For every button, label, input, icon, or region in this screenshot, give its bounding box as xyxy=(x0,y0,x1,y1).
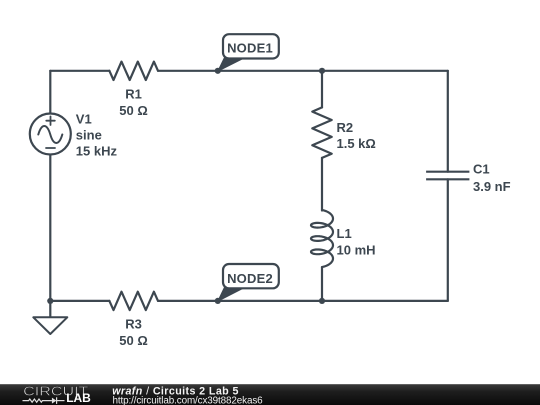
label V1 xyxy=(76,111,118,158)
footer bar xyxy=(0,384,540,405)
label L1 xyxy=(337,226,376,258)
logo diode triangle xyxy=(52,398,57,404)
svg-text:LAB: LAB xyxy=(66,391,91,405)
node NODE1 callout xyxy=(218,34,279,71)
node NODE1 dot xyxy=(215,68,221,74)
svg-text:10 mH: 10 mH xyxy=(337,243,376,258)
junction bottom left xyxy=(47,298,53,304)
junction node dots xyxy=(47,68,325,304)
svg-text:R3: R3 xyxy=(125,317,142,332)
wire right vertical lower xyxy=(447,179,449,301)
svg-text:http://circuitlab.com/cx39t882: http://circuitlab.com/cx39t882ekas6 xyxy=(113,395,264,405)
junction bottom middle xyxy=(319,298,325,304)
V1 plus sign xyxy=(46,116,55,125)
node NODE2 callout xyxy=(218,264,279,301)
label R1 xyxy=(119,87,148,119)
wire middle between R2 and L1 xyxy=(321,158,323,211)
resistor R1 xyxy=(109,62,158,80)
junction top middle xyxy=(319,68,325,74)
wire top-left vertical xyxy=(49,71,51,114)
svg-text:1.5 kΩ: 1.5 kΩ xyxy=(337,136,376,151)
svg-text:C1: C1 xyxy=(473,162,490,177)
wire right vertical upper xyxy=(447,71,449,172)
svg-text:50 Ω: 50 Ω xyxy=(119,333,148,348)
inductor L1 xyxy=(311,210,333,267)
wire bottom horizontal right segment xyxy=(158,300,448,302)
resistor R2 xyxy=(312,107,331,157)
capacitor C1 xyxy=(426,172,469,180)
label R3 xyxy=(119,317,148,349)
svg-text:R2: R2 xyxy=(337,120,354,135)
svg-text:V1: V1 xyxy=(76,111,92,126)
node NODE2 dot xyxy=(215,298,221,304)
wire middle vertical top xyxy=(321,71,323,108)
wire bottom horizontal left segment xyxy=(50,300,109,302)
svg-text:L1: L1 xyxy=(337,226,352,241)
svg-text:50 Ω: 50 Ω xyxy=(119,103,148,118)
wire top horizontal left segment xyxy=(50,70,109,72)
label R2 xyxy=(337,120,376,151)
svg-text:NODE1: NODE1 xyxy=(227,40,273,55)
wire top horizontal right segment xyxy=(158,70,448,72)
svg-text:R1: R1 xyxy=(125,87,142,102)
label C1 xyxy=(473,162,511,194)
svg-text:NODE2: NODE2 xyxy=(227,271,273,286)
svg-text:15 kHz: 15 kHz xyxy=(76,143,118,158)
wire left vertical lower xyxy=(49,155,51,301)
ground wire xyxy=(49,301,51,317)
svg-text:3.9 nF: 3.9 nF xyxy=(473,179,511,194)
V1 minus sign xyxy=(46,147,55,149)
V1 sine wave xyxy=(38,126,62,143)
svg-text:sine: sine xyxy=(76,127,102,142)
voltage source V1 circle xyxy=(30,114,71,155)
logo resistor-diode line xyxy=(23,397,65,404)
wire middle vertical bottom xyxy=(321,267,323,301)
resistor R3 xyxy=(109,292,158,310)
ground symbol xyxy=(33,317,67,334)
